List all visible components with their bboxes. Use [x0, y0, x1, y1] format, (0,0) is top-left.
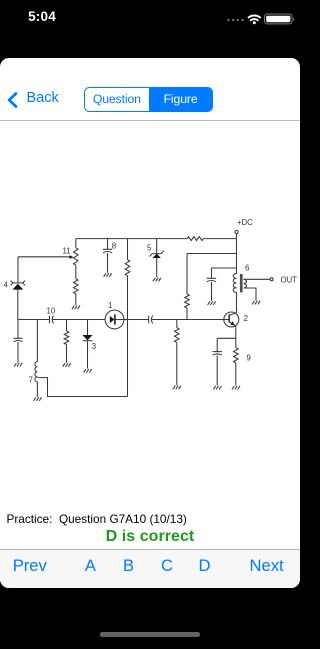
- svg-text:6: 6: [245, 264, 249, 273]
- ground: [153, 278, 161, 282]
- segmented control: [84, 87, 213, 113]
- svg-text:3: 3: [92, 342, 96, 351]
- transformer T6 secondary: [244, 279, 247, 288]
- transformer T6 primary: [233, 273, 236, 292]
- wire top bus right segment: [203, 238, 236, 240]
- resistor top (unlabeled, feeds +DC): [187, 237, 203, 241]
- wire third horizontal (to C at 211.5): [212, 267, 237, 269]
- wire Q1 right lead: [115, 319, 128, 321]
- wire secondary bottom to ground: [244, 288, 256, 300]
- practice line: [7, 512, 187, 526]
- diode D4 (left column): [17, 257, 19, 283]
- zener diode D5: [156, 239, 158, 254]
- transistor Q1 (circle with diode): [105, 310, 124, 329]
- wire main bus: left end to C10: [18, 319, 50, 321]
- ground: [208, 301, 216, 305]
- svg-text:7: 7: [29, 376, 33, 385]
- potentiometer R11 column: [75, 239, 77, 248]
- status bar right icons: [224, 8, 298, 30]
- wire pot wiper: [18, 256, 70, 258]
- capacitor below node (left edge): [17, 320, 19, 339]
- capacitor series (Q1 node to Q2 base): [128, 319, 149, 321]
- svg-text:11: 11: [63, 247, 71, 256]
- capacitor on emitter: [216, 338, 218, 351]
- svg-text:2: 2: [244, 314, 248, 323]
- diode D3: [87, 320, 89, 336]
- ground: [72, 306, 80, 310]
- svg-text:5: 5: [147, 244, 152, 253]
- transistor Q2: [224, 312, 239, 327]
- ground: [84, 369, 92, 373]
- wire tap of L7 to bottom rail: [37, 378, 127, 397]
- correct line: [0, 528, 300, 546]
- ground: [63, 363, 71, 367]
- resistor below bus (right of cap): [176, 320, 178, 328]
- wire secondary top to OUT: [244, 278, 270, 280]
- node +DC terminal: [235, 230, 238, 233]
- resistor below bus (left): [66, 320, 68, 332]
- ground: [14, 363, 22, 367]
- ground: [213, 386, 221, 390]
- ground: [104, 273, 112, 277]
- wire: [75, 265, 77, 279]
- wire +DC vertical: [236, 234, 238, 274]
- inductor L7 (tapped): [36, 320, 38, 362]
- svg-text:+DC: +DC: [237, 218, 253, 227]
- toolbar: [0, 549, 300, 588]
- svg-text:OUT: OUT: [281, 275, 298, 284]
- svg-text:1: 1: [108, 301, 112, 310]
- wire top bus left segment: [76, 238, 187, 240]
- ground: [173, 386, 181, 390]
- resistor from +DC horizontal down to bus: [186, 254, 188, 295]
- app screen: [0, 58, 300, 588]
- wire second horizontal (to R at 187): [187, 253, 237, 255]
- wire Q2 emitter down: [235, 326, 237, 339]
- capacitor (to +DC third horizontal): [211, 268, 213, 278]
- capacitor C8: [107, 239, 109, 250]
- wire emitter node left: [217, 337, 236, 339]
- node OUT terminal: [270, 278, 273, 281]
- transformer T6 core: [240, 274, 243, 292]
- capacitor C10 (series): [49, 316, 51, 323]
- ground: [232, 386, 240, 390]
- home indicator: [100, 632, 200, 637]
- svg-text:9: 9: [247, 354, 251, 363]
- ground: [34, 397, 42, 401]
- nav bar: [0, 58, 300, 121]
- resistor R9: [235, 338, 237, 347]
- ground: [252, 301, 260, 305]
- wire transformer to Q2 collector: [236, 292, 238, 313]
- resistor column x=127.5 (top bus to diode node): [127, 239, 129, 260]
- wire diode node down to bottom rail: [127, 320, 129, 397]
- resistor below pot: [74, 279, 79, 294]
- svg-text:4: 4: [4, 281, 9, 290]
- svg-text:8: 8: [112, 241, 116, 250]
- status bar time: [26, 9, 58, 24]
- svg-text:10: 10: [47, 307, 56, 316]
